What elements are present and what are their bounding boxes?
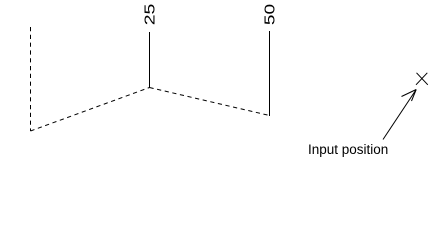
arrow shaft	[383, 90, 416, 140]
svg-text:25: 25	[141, 4, 158, 26]
X axis symbol stroke 2	[416, 73, 427, 85]
dashed falling segment	[150, 88, 270, 116]
dashed rising segment	[31, 88, 150, 132]
tick line 50	[269, 31, 271, 116]
svg-text:50: 50	[261, 4, 278, 25]
arrowhead barb right	[412, 90, 417, 102]
X axis symbol stroke 1	[417, 73, 428, 85]
tick line 25	[149, 32, 151, 88]
arrowhead barb left	[402, 90, 417, 97]
dashed vertical axis line	[30, 27, 32, 131]
svg-text:Input position: Input position	[308, 142, 388, 157]
